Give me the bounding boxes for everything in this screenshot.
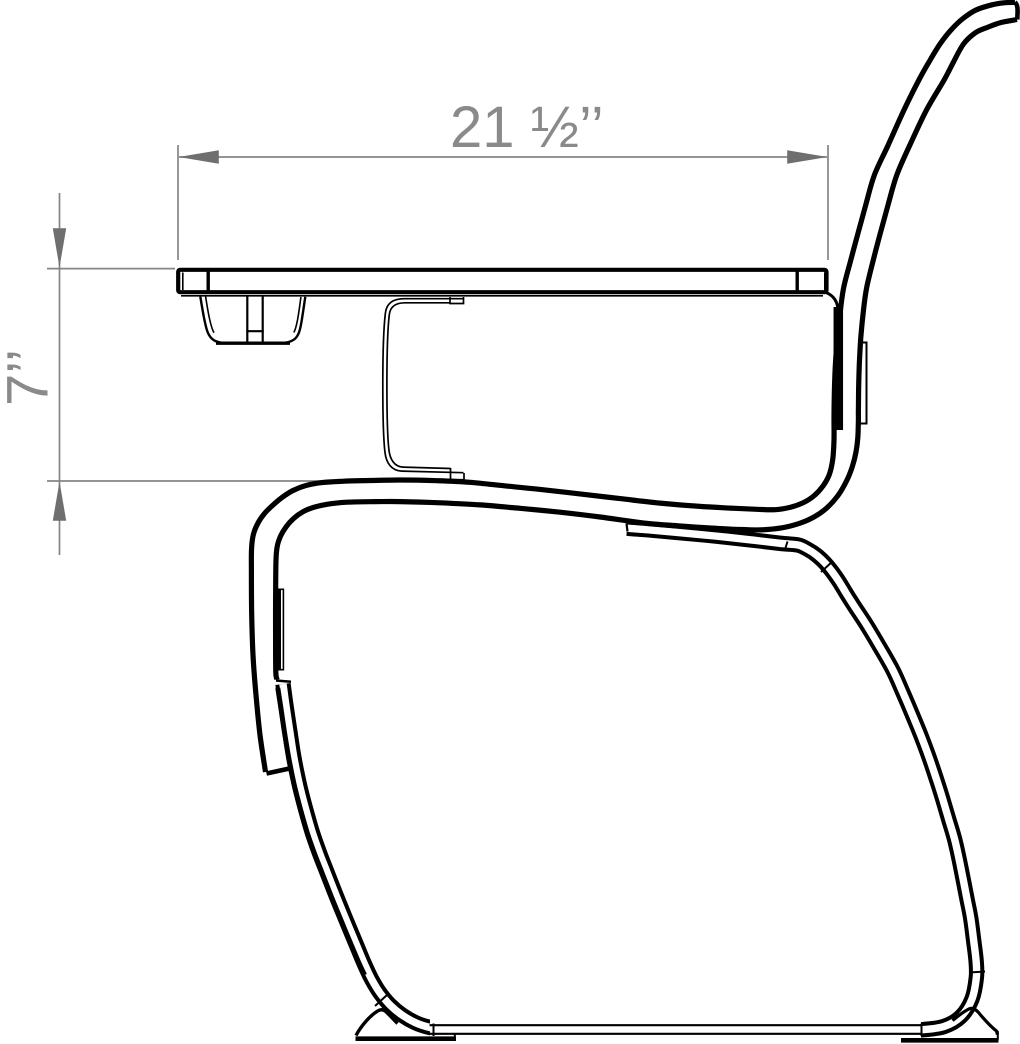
svg-text:21 ½’’: 21 ½’’ — [450, 95, 604, 160]
svg-text:7’’: 7’’ — [0, 349, 61, 406]
